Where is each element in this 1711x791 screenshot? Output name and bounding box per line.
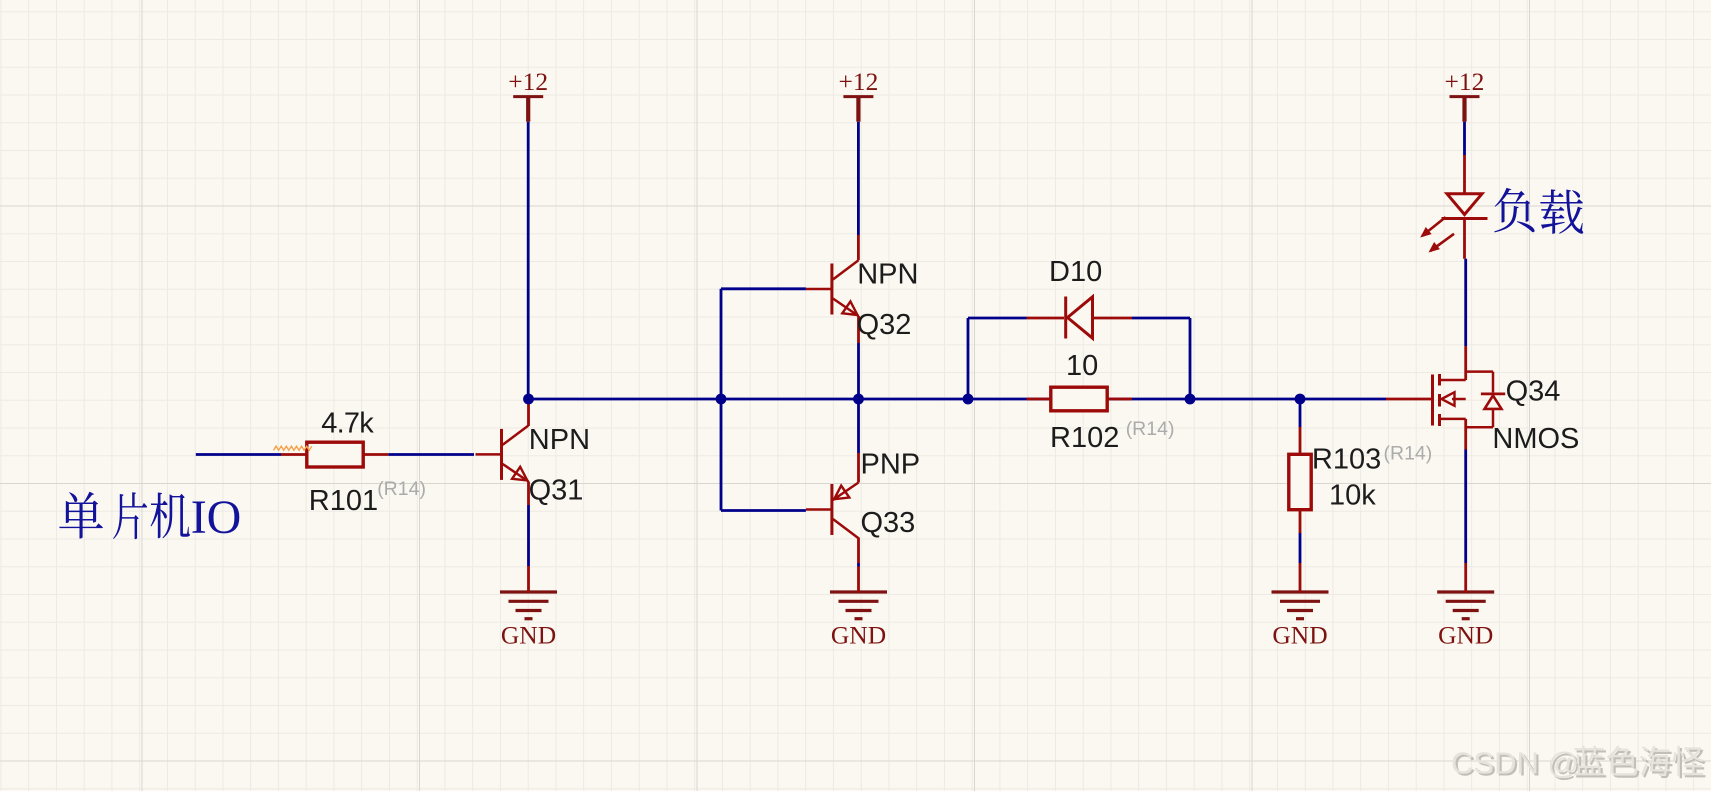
svg-text:10k: 10k [1329, 480, 1376, 512]
svg-text:Q33: Q33 [861, 507, 916, 539]
svg-text:GND: GND [1438, 621, 1493, 650]
svg-text:PNP: PNP [861, 449, 921, 481]
svg-text:NMOS: NMOS [1492, 423, 1579, 455]
svg-text:R103: R103 [1312, 444, 1381, 476]
svg-text:+12: +12 [838, 67, 878, 96]
svg-text:GND: GND [831, 621, 886, 650]
svg-text:CSDN @: CSDN @ [1451, 746, 1579, 781]
svg-text:D10: D10 [1049, 256, 1102, 288]
svg-text:Q32: Q32 [857, 309, 912, 341]
svg-text:Q31: Q31 [529, 475, 584, 507]
svg-text:Q34: Q34 [1506, 376, 1561, 408]
svg-text:IO: IO [191, 491, 242, 544]
svg-text:R102: R102 [1050, 422, 1119, 454]
svg-text:NPN: NPN [529, 424, 590, 456]
svg-text:10: 10 [1066, 350, 1098, 382]
svg-text:GND: GND [1272, 621, 1327, 650]
svg-text:GND: GND [501, 621, 556, 650]
svg-text:(R14): (R14) [1384, 443, 1433, 465]
svg-text:4.7k: 4.7k [321, 407, 374, 439]
svg-text:NPN: NPN [857, 258, 918, 290]
svg-text:(R14): (R14) [377, 478, 426, 500]
svg-text:(R14): (R14) [1126, 418, 1175, 440]
svg-text:+12: +12 [508, 67, 548, 96]
svg-text:R101: R101 [309, 485, 378, 517]
svg-text:+12: +12 [1445, 67, 1485, 96]
